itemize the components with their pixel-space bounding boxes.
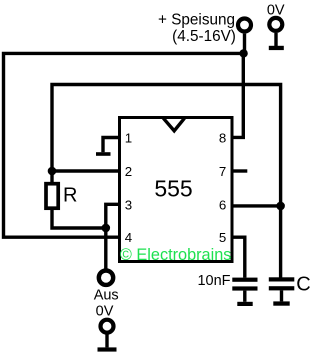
junction: +V node	[239, 49, 247, 57]
wire: +V rail (supply junction left, down left side, to pin 4 RESET)	[4, 53, 244, 237]
terminal: + Speisung	[238, 19, 251, 32]
svg-text:C: C	[296, 274, 310, 296]
wire: pin 5 to capacitor 10nF	[232, 237, 245, 277]
capacitor C1	[269, 277, 295, 290]
svg-text:10nF: 10nF	[197, 273, 230, 289]
svg-text:2: 2	[125, 164, 132, 179]
wire: pin 6 stub	[232, 204, 281, 207]
wire: pin 3 (OUT) left and down to Aus terminal	[106, 204, 120, 269]
svg-text:1: 1	[125, 130, 132, 145]
junction: node R-top / pin 2	[48, 167, 57, 176]
svg-text:(4.5-16V): (4.5-16V)	[172, 28, 236, 45]
capacitor 10nF	[232, 278, 257, 291]
svg-text:4: 4	[125, 230, 132, 245]
wire: pin 2 stub	[52, 169, 120, 172]
wire: trigger/threshold net from R top up and over to pin 6	[52, 85, 281, 206]
svg-text:R: R	[63, 185, 77, 207]
wire: pin 6 node down to capacitor C	[279, 206, 282, 278]
svg-text:8: 8	[219, 130, 226, 145]
terminal: Aus (output)	[99, 271, 113, 285]
svg-text:6: 6	[219, 197, 226, 212]
svg-text:5: 5	[219, 230, 226, 245]
junction: output node (R bottom / pin 3 / Aus)	[102, 224, 111, 233]
wire: R bottom to output node	[52, 208, 106, 228]
svg-text:0V: 0V	[96, 303, 114, 319]
0V stub under 10nF	[237, 291, 252, 306]
junction: node pin 6 / capacitor C	[276, 202, 285, 211]
IC U1 555 body	[120, 118, 233, 262]
ground symbol at pin 1	[96, 138, 120, 156]
svg-text:+ Speisung: + Speisung	[158, 11, 235, 28]
svg-text:3: 3	[125, 197, 132, 212]
wire: pin 8 (VCC) up to +V junction	[232, 53, 243, 137]
terminal: 0V top right	[269, 18, 284, 50]
terminal: 0V bottom	[98, 320, 117, 352]
resistor R1	[46, 171, 58, 208]
svg-text:7: 7	[219, 164, 226, 179]
wire: pin 7 stub	[232, 169, 247, 172]
wire: supply terminal down to junction	[243, 34, 246, 54]
svg-text:© Electrobrains: © Electrobrains	[120, 246, 232, 264]
0V stub under capacitor C	[273, 290, 289, 305]
svg-text:Aus: Aus	[94, 288, 119, 304]
svg-text:555: 555	[154, 175, 192, 201]
